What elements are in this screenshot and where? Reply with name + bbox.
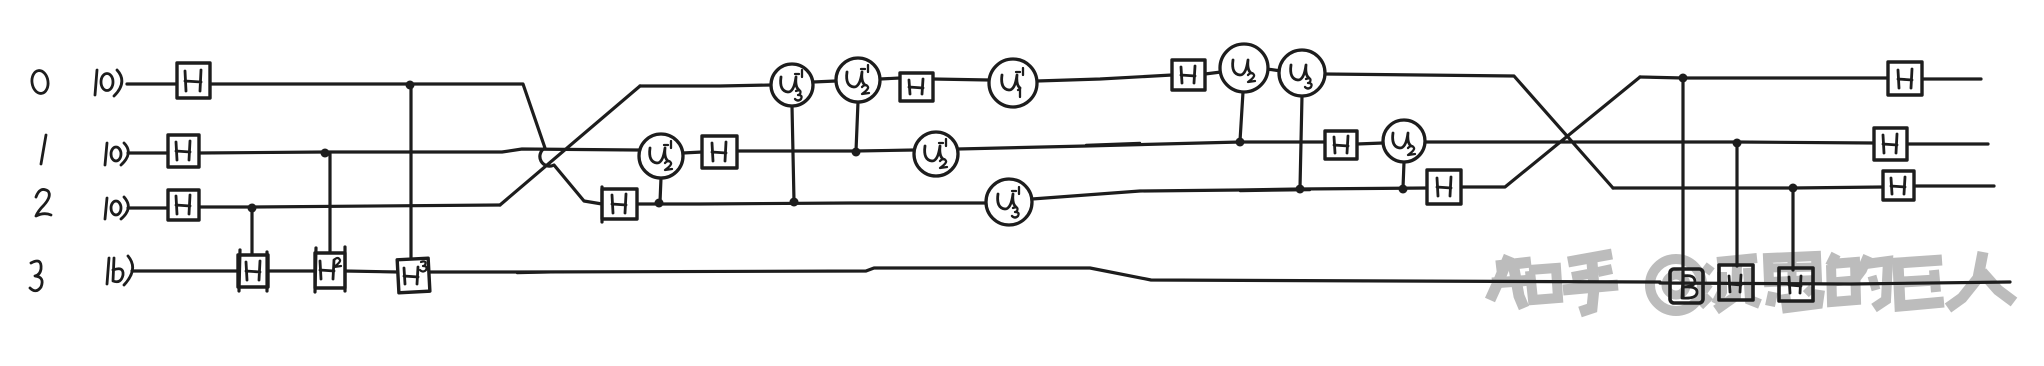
control dot q2 x1793 <box>1789 184 1798 193</box>
wire q0 after right H to end <box>1922 77 1981 80</box>
control line U2inv circle to q2row dot <box>660 178 661 202</box>
wire q0 after H to swap descent into row2 <box>210 84 602 204</box>
control dot q0 x1683 <box>1679 74 1688 83</box>
gate B box on q3 <box>1670 269 1703 303</box>
watermark char 的 <box>1830 254 1888 308</box>
wire q0 ket to H <box>127 82 177 85</box>
gate U3 circle row0 <box>1279 50 1325 96</box>
wire row0-position q2 U1inv to H <box>1037 75 1172 81</box>
wire row0-position q2 U3inv to U2inv <box>813 81 836 82</box>
gate H row2 box right-mid <box>1427 170 1461 204</box>
wire row2-position q0 from H into right swap ascent <box>1461 77 1640 187</box>
wire overlap mark q1 <box>1086 143 1140 145</box>
control line q0 to box B on q3 <box>1681 80 1684 296</box>
control line U3inv circle to q2row dot <box>792 106 794 201</box>
box overshoot H mid row2 <box>600 187 603 222</box>
label H3 q3 <box>404 267 418 284</box>
label U2inv circle row0 <box>847 65 869 94</box>
wire q1 H to U2 circle <box>1357 143 1383 144</box>
label B box q3 <box>1682 276 1697 299</box>
label U3 circle row0 <box>1291 65 1312 89</box>
wire overlap mark q3 <box>517 272 562 273</box>
watermark char 沉 <box>1700 258 1760 310</box>
label H q2 left <box>176 195 190 214</box>
gate H q1 left box <box>168 135 199 167</box>
control line q2 to box H on q3 <box>1791 190 1794 270</box>
gate H q0 left box <box>177 63 210 98</box>
gate U2 circle q1 <box>1383 120 1425 162</box>
control dot row2 x659 <box>655 199 664 208</box>
control dot q1 x325 <box>321 149 330 158</box>
label H q0 right <box>1898 69 1912 88</box>
gate U2inv circle q1 <box>639 134 683 178</box>
control dot row2 x794 <box>790 198 799 207</box>
wire q2 after H to swap ascent <box>199 205 500 207</box>
gate H box3 on q3 <box>1779 268 1813 301</box>
wire q1 after U2inv to H <box>958 142 1325 149</box>
wire q1 after H through crossing to U2inv circle <box>199 149 639 153</box>
wire q2 ket to H <box>128 206 168 209</box>
gate U2inv circle q1 second <box>914 132 958 176</box>
label H row2 x1427 <box>1437 177 1451 196</box>
gate U1inv circle row0 <box>989 59 1037 107</box>
label H q3 <box>246 261 260 280</box>
label H row0 x1172 <box>1181 66 1195 83</box>
wire row0-position q2 to U3inv circle <box>640 85 771 86</box>
gate U3inv circle row0 <box>771 64 813 106</box>
gate H3 q3 box <box>397 258 430 293</box>
ket |0> q0 <box>95 70 122 96</box>
control line U2 circle to q2row dot <box>1403 162 1404 188</box>
control dot q1 x856 <box>852 148 861 157</box>
gate H q0 right box <box>1888 62 1922 95</box>
wire q1 H to U2inv second <box>737 150 914 151</box>
label superscript 2 on H2 <box>334 258 341 267</box>
label H q1 x1325 <box>1334 136 1348 153</box>
gate H mid row2 box <box>602 189 637 219</box>
control dot q0 x410 <box>406 81 415 90</box>
gate H q1 box right-mid <box>1325 131 1357 159</box>
wire row2-position q0 from U3 circle to H <box>1032 188 1427 199</box>
qubit label 1 <box>41 135 46 164</box>
label U3inv circle row2 <box>998 187 1019 218</box>
wire q1 U2inv to H <box>683 152 702 153</box>
qubit label 0 <box>30 69 49 94</box>
gate H row0 before U2 box <box>1172 60 1205 90</box>
qubit label 2 <box>36 189 51 216</box>
wire q2 after right H to end <box>1914 184 1994 187</box>
wire q3 under right boxes to end <box>1660 282 2010 284</box>
wire row2-position q0 segment H to U3 circle <box>637 203 986 204</box>
gate H2 q3 box <box>315 253 345 288</box>
ket |0> q1 <box>105 143 128 165</box>
label U2inv circle q1 second <box>925 139 947 168</box>
wire row0-position q2 H to U2 circle <box>1205 72 1221 74</box>
wire q1 after right H to end <box>1907 142 1988 145</box>
wire row0-position q2 H to U1inv <box>933 79 989 80</box>
wire row0-position q2 U2inv to H <box>880 78 900 79</box>
label U2inv circle q1 <box>650 141 672 170</box>
gate H q2 left box <box>168 190 199 220</box>
watermark char 人 <box>1948 252 2014 308</box>
watermark char 知 <box>1490 256 1558 308</box>
control line U2 circle to q1 dot <box>1240 92 1243 141</box>
control line U3 circle to q2row dot <box>1300 96 1302 188</box>
gate U3inv circle row2 <box>986 179 1032 225</box>
box overshoot H q3 <box>239 250 267 291</box>
control dot row2 x1403 <box>1399 185 1408 194</box>
control line q1 to H2 on q3 <box>328 154 331 255</box>
qubit label 3 <box>30 261 42 291</box>
gate H q2 right box <box>1883 171 1914 200</box>
label H q1 left <box>176 141 190 160</box>
label H box3 q3 <box>1789 276 1801 293</box>
gate H box2 on q3 <box>1719 265 1753 300</box>
label U2 circle q1 <box>1393 133 1415 155</box>
label H q0 left <box>185 70 201 91</box>
control line U2inv circle to q1 dot <box>856 102 858 151</box>
gate H q3 box <box>238 255 268 287</box>
control dot q1 x1240 <box>1236 138 1245 147</box>
wire q0 right top segment to H <box>1640 77 1888 78</box>
label H q2 right <box>1891 177 1905 194</box>
label H q1 right <box>1883 134 1897 153</box>
wire q1 ket to H <box>128 151 168 154</box>
label H mid row0 <box>909 79 923 94</box>
control dot q1 x1737 <box>1733 139 1742 148</box>
label H2 q3 <box>320 260 334 279</box>
wire overlap mark row2 <box>1240 190 1310 191</box>
control dot row2 x1300 <box>1296 185 1305 194</box>
wire row0-position q2 between U2 and U3 circles <box>1267 69 1281 71</box>
control line q0 to H3 on q3 <box>409 86 412 260</box>
watermark char 巨 <box>1898 260 1944 306</box>
label U2 circle row0 <box>1233 60 1255 82</box>
gate U2 circle row0 <box>1220 44 1268 92</box>
wire q3 ket to H <box>132 269 238 272</box>
watermark @ <box>1650 259 1702 311</box>
gate H q1 right box <box>1874 128 1907 160</box>
control dot q2 x252 <box>248 204 257 213</box>
wire q3 long segment after H3 <box>428 268 1660 282</box>
watermark char 思 <box>1768 256 1820 308</box>
label H mid row2 <box>612 194 626 213</box>
wire row0-position q2 U3 circle to right swap descent <box>1325 74 1613 188</box>
wire q2 right bottom segment to H <box>1613 187 1883 188</box>
ket |b> q3 <box>107 256 133 285</box>
control line q2 to H on q3 <box>250 209 253 256</box>
watermark char 乎 <box>1563 254 1618 312</box>
wire q3 H to H2 <box>268 269 315 272</box>
wire q1 U2 circle to right H <box>1425 142 1874 143</box>
label H box2 q3 <box>1729 275 1741 292</box>
control line q1 to box H on q3 <box>1735 145 1738 266</box>
wire q2 ascent to row0 position <box>500 86 640 205</box>
box overshoot H2 q3 <box>315 247 345 292</box>
label U1inv circle row0 <box>1002 68 1023 97</box>
label superscript 3 on H3 <box>420 261 427 271</box>
gate U2inv circle row0 <box>836 58 880 102</box>
gate H mid q1 box <box>702 136 737 168</box>
label H mid q1 <box>712 142 726 161</box>
wire q3 H2 to H3 <box>345 271 398 272</box>
gate H mid row0 box <box>900 73 933 101</box>
label U3inv circle row0 <box>781 70 802 101</box>
ket |0> q2 <box>105 197 128 219</box>
